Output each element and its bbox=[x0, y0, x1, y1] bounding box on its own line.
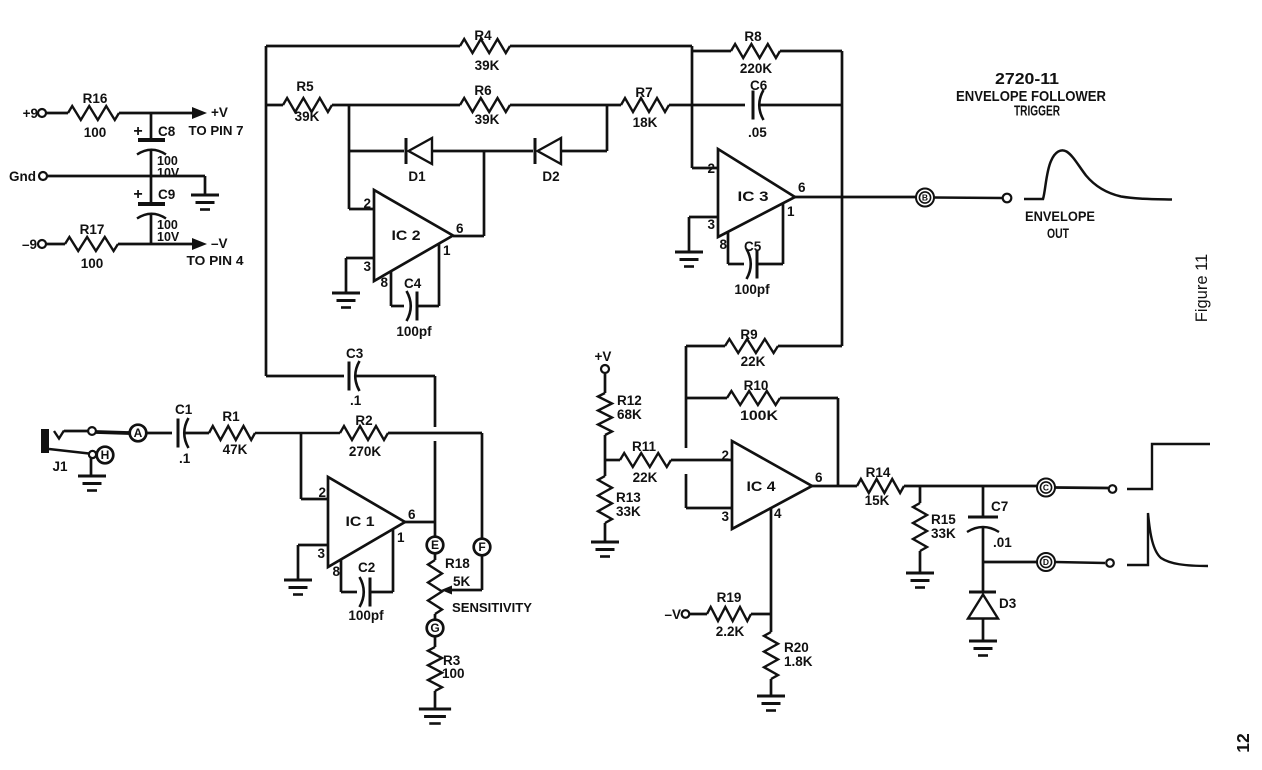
wire bbox=[983, 561, 1037, 564]
node D bbox=[1037, 553, 1055, 571]
resistor R11 bbox=[620, 439, 671, 485]
wire bbox=[150, 215, 153, 244]
wire bbox=[770, 679, 773, 695]
resistor R3 bbox=[428, 647, 465, 691]
node +9 bbox=[23, 106, 46, 121]
svg-text:1.8K: 1.8K bbox=[784, 654, 813, 669]
wire bbox=[691, 46, 694, 168]
svg-text:C4: C4 bbox=[404, 276, 422, 291]
op-amp IC2 bbox=[374, 190, 453, 281]
resistor R5 bbox=[283, 79, 332, 124]
ground bbox=[969, 641, 997, 656]
svg-text:TRIGGER: TRIGGER bbox=[1014, 103, 1060, 120]
wire bbox=[434, 691, 437, 708]
wire bbox=[685, 474, 688, 508]
svg-text:2720-11: 2720-11 bbox=[995, 71, 1059, 88]
svg-text:D3: D3 bbox=[999, 596, 1017, 611]
resistor R1 bbox=[209, 409, 255, 457]
resistor R6 bbox=[460, 83, 510, 127]
resistor R13 bbox=[598, 476, 641, 523]
svg-text:2: 2 bbox=[721, 448, 729, 463]
terminal bbox=[88, 427, 96, 435]
svg-text:33K: 33K bbox=[616, 504, 641, 519]
svg-text:J1: J1 bbox=[52, 459, 68, 474]
svg-text:C5: C5 bbox=[744, 239, 762, 254]
wire bbox=[686, 345, 725, 348]
ground bbox=[191, 195, 219, 210]
svg-text:100pf: 100pf bbox=[348, 608, 384, 623]
svg-text:R7: R7 bbox=[635, 85, 652, 100]
wire bbox=[483, 151, 486, 236]
IC4 pin 3 bbox=[686, 508, 732, 524]
resistor R4 bbox=[460, 28, 510, 73]
resistor R14 bbox=[857, 465, 904, 508]
wire bbox=[265, 46, 268, 376]
resistor R7 bbox=[621, 85, 669, 130]
svg-text:22K: 22K bbox=[633, 470, 658, 485]
wire bbox=[96, 432, 129, 433]
IC2 pin 3 bbox=[346, 258, 374, 292]
wire bbox=[118, 243, 196, 246]
node +V bbox=[595, 349, 612, 373]
svg-text:6: 6 bbox=[456, 221, 464, 236]
svg-text:Figure 11: Figure 11 bbox=[1193, 254, 1211, 322]
node B bbox=[916, 189, 934, 207]
svg-text:F: F bbox=[478, 540, 485, 554]
resistor R12 bbox=[598, 393, 642, 435]
svg-text:12: 12 bbox=[1233, 733, 1253, 753]
IC4 pin 6 bbox=[812, 470, 857, 486]
svg-text:18K: 18K bbox=[633, 115, 658, 130]
svg-text:100K: 100K bbox=[740, 408, 778, 423]
capacitor C5 bbox=[728, 239, 783, 297]
wire bbox=[561, 150, 607, 153]
svg-text:2: 2 bbox=[363, 196, 371, 211]
wire bbox=[90, 458, 93, 475]
svg-text:47K: 47K bbox=[223, 442, 248, 457]
svg-text:6: 6 bbox=[798, 180, 806, 195]
IC2 pin 1 bbox=[439, 243, 451, 306]
wire bbox=[982, 618, 985, 640]
wire bbox=[1055, 486, 1108, 489]
svg-text:3: 3 bbox=[721, 509, 729, 524]
wire bbox=[356, 375, 435, 378]
IC1 pin 8 bbox=[332, 559, 341, 592]
svg-text:100: 100 bbox=[442, 666, 465, 681]
svg-text:.1: .1 bbox=[179, 451, 191, 466]
IC3 pin 2 bbox=[692, 161, 718, 176]
node H bbox=[97, 447, 114, 464]
wire bbox=[349, 150, 404, 153]
title 2720-11 ENVELOPE FOLLOWER TRIGGER bbox=[956, 71, 1106, 120]
decay spike waveform at D bbox=[1127, 513, 1208, 566]
wire bbox=[604, 523, 607, 541]
terminal bbox=[89, 451, 96, 458]
IC2 pin 2 bbox=[349, 196, 374, 211]
svg-text:R16: R16 bbox=[83, 91, 108, 106]
terminal bbox=[1003, 194, 1012, 203]
capacitor C4 bbox=[391, 276, 439, 339]
wire bbox=[841, 51, 844, 346]
wire bbox=[510, 45, 692, 48]
node -9 bbox=[22, 237, 46, 252]
wire bbox=[119, 112, 196, 115]
svg-text:R19: R19 bbox=[717, 590, 742, 605]
svg-text:.1: .1 bbox=[350, 393, 362, 408]
IC4 pin 2 bbox=[721, 448, 729, 463]
svg-text:+: + bbox=[133, 123, 142, 140]
svg-text:8: 8 bbox=[332, 564, 340, 579]
svg-text:Gnd: Gnd bbox=[9, 169, 36, 184]
wire bbox=[606, 105, 609, 151]
ground bbox=[78, 476, 106, 491]
resistor R8 bbox=[731, 29, 780, 76]
svg-text:6: 6 bbox=[815, 470, 823, 485]
svg-text:IC 3: IC 3 bbox=[738, 189, 770, 204]
svg-text:6: 6 bbox=[408, 507, 416, 522]
svg-text:1: 1 bbox=[787, 204, 795, 219]
svg-text:10V: 10V bbox=[157, 166, 180, 180]
svg-text:C: C bbox=[1043, 483, 1049, 493]
capacitor C3 bbox=[346, 346, 364, 408]
wire bbox=[255, 432, 340, 435]
wire bbox=[780, 50, 842, 53]
svg-text:.05: .05 bbox=[748, 125, 767, 140]
node +V TO PIN 7 bbox=[189, 105, 244, 138]
wire bbox=[919, 551, 922, 572]
svg-text:R17: R17 bbox=[80, 222, 105, 237]
wire bbox=[671, 459, 732, 462]
svg-text:R4: R4 bbox=[474, 28, 492, 43]
diode D2 bbox=[535, 138, 561, 184]
svg-text:+V: +V bbox=[211, 105, 228, 120]
wire bbox=[185, 432, 209, 435]
ground bbox=[419, 709, 451, 724]
svg-text:R18: R18 bbox=[445, 556, 470, 571]
svg-text:R10: R10 bbox=[744, 378, 769, 393]
wire bbox=[332, 104, 460, 107]
wire bbox=[780, 397, 838, 400]
svg-text:220K: 220K bbox=[740, 61, 773, 76]
svg-text:R5: R5 bbox=[296, 79, 314, 94]
svg-text:33K: 33K bbox=[931, 526, 956, 541]
svg-text:39K: 39K bbox=[295, 109, 320, 124]
svg-text:D: D bbox=[1043, 557, 1049, 567]
svg-text:SENSITIVITY: SENSITIVITY bbox=[452, 601, 533, 615]
svg-text:10V: 10V bbox=[157, 230, 180, 244]
wire bbox=[685, 346, 688, 448]
ground bbox=[591, 542, 619, 557]
wire bbox=[604, 373, 607, 393]
wire bbox=[204, 176, 207, 194]
IC1 pin 2 bbox=[301, 485, 328, 500]
svg-text:3: 3 bbox=[317, 546, 325, 561]
wire bbox=[934, 196, 1002, 199]
ground bbox=[906, 573, 934, 588]
op-amp IC4 bbox=[732, 441, 812, 529]
capacitor C1 bbox=[175, 402, 193, 466]
svg-text:15K: 15K bbox=[865, 493, 890, 508]
diode D1 bbox=[406, 138, 432, 184]
svg-text:1: 1 bbox=[397, 530, 405, 545]
terminal bbox=[1109, 485, 1117, 493]
svg-text:IC 2: IC 2 bbox=[392, 228, 421, 243]
wire bbox=[669, 104, 745, 107]
op-amp IC3 bbox=[718, 149, 795, 237]
svg-text:C8: C8 bbox=[158, 124, 176, 139]
svg-text:C3: C3 bbox=[346, 346, 364, 361]
svg-text:–V: –V bbox=[664, 607, 681, 622]
envelope out waveform bbox=[1024, 150, 1172, 241]
svg-text:4: 4 bbox=[774, 506, 782, 521]
svg-text:2: 2 bbox=[707, 161, 715, 176]
svg-text:270K: 270K bbox=[349, 444, 382, 459]
wire bbox=[759, 104, 842, 107]
wire bbox=[434, 376, 437, 427]
svg-text:1: 1 bbox=[443, 243, 451, 258]
svg-text:IC 4: IC 4 bbox=[747, 479, 777, 494]
svg-text:D1: D1 bbox=[408, 169, 426, 184]
wire bbox=[605, 459, 620, 462]
svg-text:39K: 39K bbox=[475, 112, 500, 127]
svg-text:R13: R13 bbox=[616, 490, 641, 505]
svg-text:R15: R15 bbox=[931, 512, 956, 527]
node A bbox=[130, 425, 147, 442]
wire bbox=[64, 430, 88, 433]
svg-text:8: 8 bbox=[380, 275, 388, 290]
svg-text:3: 3 bbox=[363, 259, 371, 274]
svg-text:+V: +V bbox=[595, 349, 612, 364]
wire bbox=[348, 105, 351, 209]
svg-text:100pf: 100pf bbox=[734, 282, 770, 297]
svg-text:TO PIN 4: TO PIN 4 bbox=[187, 254, 244, 268]
svg-text:R11: R11 bbox=[632, 439, 657, 454]
node -V bbox=[664, 607, 689, 622]
capacitor C9 bbox=[133, 186, 180, 244]
node C bbox=[1037, 479, 1055, 497]
svg-text:R6: R6 bbox=[474, 83, 492, 98]
svg-text:R20: R20 bbox=[784, 640, 809, 655]
capacitor C2 bbox=[341, 560, 393, 623]
svg-text:100pf: 100pf bbox=[396, 324, 432, 339]
svg-text:100: 100 bbox=[81, 256, 104, 271]
wire bbox=[388, 432, 482, 435]
svg-text:3: 3 bbox=[707, 217, 715, 232]
IC3 pin 3 bbox=[689, 217, 718, 251]
terminal bbox=[1106, 559, 1114, 567]
wire bbox=[604, 435, 607, 476]
wire bbox=[46, 112, 68, 115]
IC2 pin 6 bbox=[453, 221, 484, 236]
wire bbox=[266, 45, 460, 48]
svg-text:–9: –9 bbox=[22, 237, 37, 252]
IC3 pin 8 bbox=[719, 231, 728, 264]
svg-text:R1: R1 bbox=[222, 409, 240, 424]
svg-text:B: B bbox=[922, 193, 928, 203]
wire bbox=[300, 433, 303, 499]
wire bbox=[692, 50, 731, 53]
resistor R16 bbox=[68, 91, 119, 140]
wire bbox=[434, 636, 437, 647]
wire bbox=[982, 527, 985, 591]
resistor R20 bbox=[764, 614, 813, 679]
svg-text:C9: C9 bbox=[158, 187, 175, 202]
resistor R19 bbox=[707, 590, 751, 639]
node G bbox=[427, 620, 444, 637]
IC2 pin 8 bbox=[380, 271, 391, 306]
IC1 pin 1 bbox=[393, 530, 405, 592]
node F bbox=[474, 539, 491, 556]
capacitor C8 bbox=[133, 123, 180, 180]
svg-text:–V: –V bbox=[211, 236, 228, 251]
wire bbox=[434, 553, 437, 560]
svg-text:C2: C2 bbox=[358, 560, 375, 575]
svg-text:R12: R12 bbox=[617, 393, 642, 408]
svg-text:R14: R14 bbox=[866, 465, 891, 480]
ground bbox=[757, 696, 785, 711]
svg-text:2.2K: 2.2K bbox=[716, 624, 745, 639]
capacitor C7 bbox=[967, 486, 1012, 550]
resistor R10 bbox=[727, 378, 780, 423]
svg-text:2: 2 bbox=[318, 485, 326, 500]
wire bbox=[686, 397, 727, 400]
svg-text:C1: C1 bbox=[175, 402, 193, 417]
svg-text:R9: R9 bbox=[740, 327, 757, 342]
svg-text:E: E bbox=[431, 538, 439, 552]
svg-text:A: A bbox=[134, 426, 143, 440]
svg-text:D2: D2 bbox=[542, 169, 559, 184]
ground bbox=[284, 580, 312, 595]
svg-text:+: + bbox=[133, 186, 142, 203]
wire bbox=[510, 104, 621, 107]
svg-text:+9: +9 bbox=[23, 106, 38, 121]
IC1 pin 6 bbox=[405, 507, 435, 522]
wire bbox=[434, 441, 437, 536]
wire bbox=[432, 150, 533, 153]
svg-text:R2: R2 bbox=[355, 413, 372, 428]
resistor R17 bbox=[65, 222, 118, 271]
wire bbox=[689, 613, 707, 616]
svg-text:IC 1: IC 1 bbox=[346, 514, 376, 529]
wire bbox=[47, 175, 205, 178]
square step waveform at C bbox=[1127, 444, 1210, 489]
svg-text:R8: R8 bbox=[744, 29, 762, 44]
resistor R2 bbox=[340, 413, 388, 459]
svg-text:OUT: OUT bbox=[1047, 225, 1069, 241]
wire bbox=[150, 113, 153, 139]
potentiometer R18 5K SENSITIVITY bbox=[428, 555, 533, 615]
svg-text:39K: 39K bbox=[475, 58, 500, 73]
wire bbox=[751, 613, 771, 616]
capacitor C6 bbox=[748, 78, 768, 140]
jack J1 bbox=[41, 429, 89, 474]
IC1 pin 3 bbox=[298, 545, 328, 579]
IC3 pin 1 bbox=[783, 203, 795, 264]
svg-text:5K: 5K bbox=[453, 574, 471, 589]
svg-text:G: G bbox=[430, 621, 439, 635]
node E bbox=[427, 537, 444, 554]
wire bbox=[266, 104, 283, 107]
svg-text:H: H bbox=[101, 448, 110, 462]
wire bbox=[1055, 562, 1105, 563]
svg-text:ENVELOPE: ENVELOPE bbox=[1025, 208, 1095, 224]
svg-text:TO PIN 7: TO PIN 7 bbox=[189, 124, 244, 138]
resistor R9 bbox=[725, 327, 778, 369]
wire bbox=[904, 485, 1037, 488]
wire bbox=[266, 375, 344, 378]
svg-text:C7: C7 bbox=[991, 499, 1008, 514]
wire bbox=[481, 433, 484, 538]
svg-text:8: 8 bbox=[719, 237, 727, 252]
svg-text:22K: 22K bbox=[741, 354, 766, 369]
IC4 pin 4 bbox=[771, 506, 782, 614]
svg-text:68K: 68K bbox=[617, 407, 642, 422]
node Gnd bbox=[9, 169, 47, 184]
svg-text:100: 100 bbox=[84, 125, 107, 140]
ground bbox=[675, 252, 703, 267]
node -V TO PIN 4 bbox=[187, 236, 244, 268]
wire bbox=[150, 151, 153, 203]
diode D3 bbox=[968, 592, 1017, 619]
resistor R15 bbox=[913, 486, 956, 551]
wire bbox=[46, 243, 65, 246]
wire bbox=[434, 614, 437, 620]
svg-text:C6: C6 bbox=[750, 78, 768, 93]
wire bbox=[837, 398, 840, 486]
wire bbox=[778, 345, 842, 348]
wire bbox=[147, 432, 172, 435]
op-amp IC1 bbox=[328, 477, 405, 567]
IC3 pin 6 bbox=[795, 180, 916, 197]
ground bbox=[332, 293, 360, 308]
svg-text:.01: .01 bbox=[993, 535, 1012, 550]
